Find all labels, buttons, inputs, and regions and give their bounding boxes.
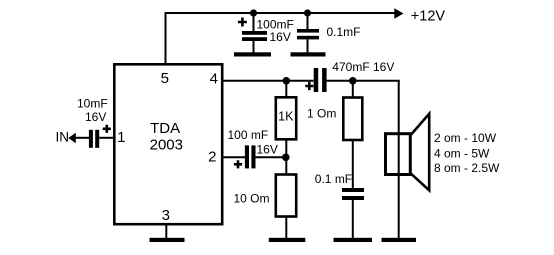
wire C6 to ground (352, 200, 354, 239)
wire R2 to ground (285, 216, 287, 239)
svg-text:+12V: +12V (411, 8, 446, 24)
wire R3 to C6 (352, 140, 354, 189)
wire C4 to feedback node (256, 156, 285, 158)
svg-text:16V: 16V (257, 142, 278, 156)
resistor R1 1K (276, 97, 296, 139)
capacitor C6 0.1mF (315, 172, 364, 200)
ground under R2 (269, 238, 306, 242)
wire C3 to pin 1 (99, 137, 114, 139)
wire pin 2 to C4 (221, 156, 246, 158)
svg-text:10mF: 10mF (77, 96, 108, 110)
op-amp U1 TDA2003 (114, 64, 222, 224)
node R3 junction (349, 77, 357, 85)
IN arrow (68, 133, 76, 143)
svg-text:10 Om: 10 Om (234, 192, 270, 206)
node pin 4 / R1 junction (283, 77, 291, 85)
svg-text:5: 5 (161, 70, 169, 87)
ground under C1 (234, 52, 271, 56)
wire pin 3 to ground (165, 224, 167, 239)
wire node to R2 (285, 158, 287, 175)
svg-text:16V: 16V (270, 30, 291, 44)
capacitor C3 10mF 16V (77, 96, 111, 147)
svg-text:1 Om: 1 Om (307, 107, 336, 121)
wire C5 to speaker (327, 80, 400, 82)
svg-text:3: 3 (162, 207, 170, 224)
wire R3 top lead (352, 82, 354, 98)
svg-text:1: 1 (117, 129, 125, 146)
svg-text:2: 2 (208, 149, 216, 166)
node V+ at C1 (250, 9, 257, 16)
ground under speaker (382, 238, 417, 242)
svg-text:TDA: TDA (150, 120, 180, 137)
svg-text:1K: 1K (278, 110, 294, 124)
svg-text:100 mF: 100 mF (228, 128, 269, 142)
ground under C2 (291, 52, 326, 56)
svg-text:0.1mF: 0.1mF (327, 25, 361, 39)
wire R1 top lead (285, 82, 287, 97)
node feedback junction (282, 154, 290, 162)
svg-text:4 om - 5W: 4 om - 5W (434, 146, 490, 160)
wire pin 4 to C5 (221, 80, 314, 82)
svg-text:4: 4 (210, 70, 218, 87)
capacitor C5 470mF 16V (305, 60, 394, 92)
+12V supply arrow (394, 8, 403, 19)
capacitor C2 0.1mF (297, 13, 361, 54)
wire +V top rail (165, 12, 396, 14)
node V+ at C2 (304, 9, 311, 16)
wire pin 5 to rail (165, 13, 167, 64)
wire R1 bottom to node (285, 140, 287, 156)
resistor R3 1 Om (307, 98, 362, 141)
resistor R2 10 Om (234, 175, 297, 217)
svg-text:2 om - 10W: 2 om - 10W (434, 131, 497, 145)
ground pin 3 (150, 238, 185, 242)
wire speaker vertical (398, 81, 400, 239)
svg-text:470mF 16V: 470mF 16V (332, 60, 394, 74)
svg-text:IN: IN (56, 130, 70, 145)
capacitor C1 100mF 16V (238, 13, 294, 54)
speaker LS1 (386, 114, 501, 191)
svg-text:2003: 2003 (150, 137, 183, 154)
wire IN to C3 (75, 137, 89, 139)
svg-text:0.1 mF: 0.1 mF (315, 172, 352, 186)
svg-text:8 om - 2.5W: 8 om - 2.5W (434, 161, 500, 175)
ground under C6 (334, 238, 373, 242)
svg-text:16V: 16V (85, 110, 106, 124)
capacitor C4 100mF 16V (228, 128, 278, 169)
